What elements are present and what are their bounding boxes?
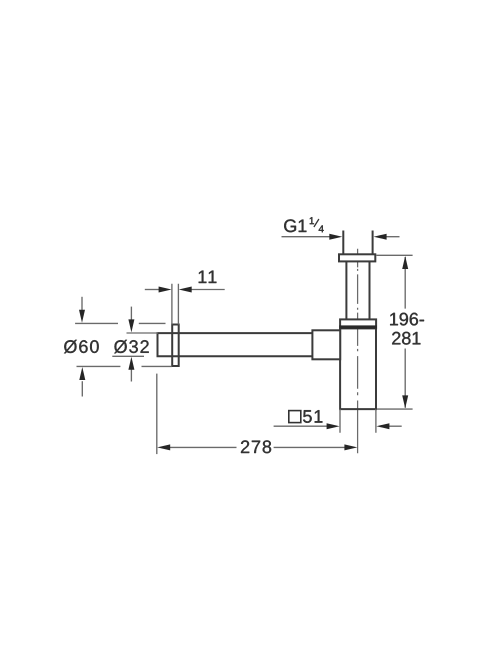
- extension line D32 top: [127, 332, 159, 334]
- dim line 11 left: [145, 289, 160, 291]
- label 281: [392, 332, 420, 345]
- label G1: [284, 219, 306, 232]
- vertical pipe below flange: [346, 261, 369, 319]
- extension line 278 left: [156, 374, 158, 455]
- arrow D32 lower: [130, 368, 132, 382]
- arrow G1 left: [329, 234, 342, 240]
- extension lines square51 below body: [340, 409, 376, 433]
- label D32: [114, 340, 149, 353]
- arrow 11 left: [159, 287, 172, 293]
- horizontal inlet tube: [158, 332, 313, 357]
- extension line 196-281 top: [376, 254, 412, 256]
- leader line square51: [274, 425, 328, 427]
- extension lines 11: [172, 284, 179, 325]
- arrow G1 right: [374, 234, 387, 240]
- arrow square51 left: [327, 423, 340, 429]
- coupling nut: [312, 330, 340, 359]
- label 196-: [390, 313, 424, 326]
- arrow 11 right: [179, 287, 192, 293]
- extension line D32 bottom: [112, 355, 144, 357]
- dim line 11 right: [191, 289, 225, 291]
- fraction slash of G1 1/4: [314, 219, 319, 227]
- collar dark band: [339, 325, 377, 328]
- label 51: [303, 410, 322, 423]
- centerline: [357, 249, 359, 454]
- label 278: [241, 440, 271, 453]
- extension line 196-281 bottom: [377, 408, 413, 410]
- square symbol of square51: [289, 411, 301, 423]
- trap body: [339, 329, 377, 409]
- arrow 278 right: [344, 444, 357, 450]
- dim line G1 right: [385, 236, 399, 238]
- leader line G1 1/4: [282, 236, 332, 238]
- arrow 196-281 down: [402, 395, 408, 408]
- arrow D32 upper: [130, 307, 132, 322]
- label fraction denominator 4: [319, 225, 324, 232]
- dim line 278: [170, 446, 346, 448]
- label 11: [199, 271, 217, 283]
- extension line D60 bottom: [77, 365, 172, 367]
- dim line 196-281: [404, 257, 406, 408]
- arrow 278 left: [157, 444, 170, 450]
- dim line square51 right: [389, 425, 402, 427]
- arrow D60 upper: [81, 297, 83, 312]
- arrow square51 right: [376, 423, 389, 429]
- wall flange: [172, 325, 179, 367]
- extension line D60 top: [75, 322, 165, 324]
- arrow D60 lower: [81, 381, 83, 396]
- top escutcheon flange: [339, 254, 375, 261]
- wire tailpipe G1 1/4 top pipe: [343, 231, 372, 255]
- label D60: [64, 340, 99, 353]
- arrow 196-281 up: [402, 256, 408, 269]
- trap body collar nut: [340, 319, 376, 328]
- label fraction numerator 1: [310, 217, 314, 224]
